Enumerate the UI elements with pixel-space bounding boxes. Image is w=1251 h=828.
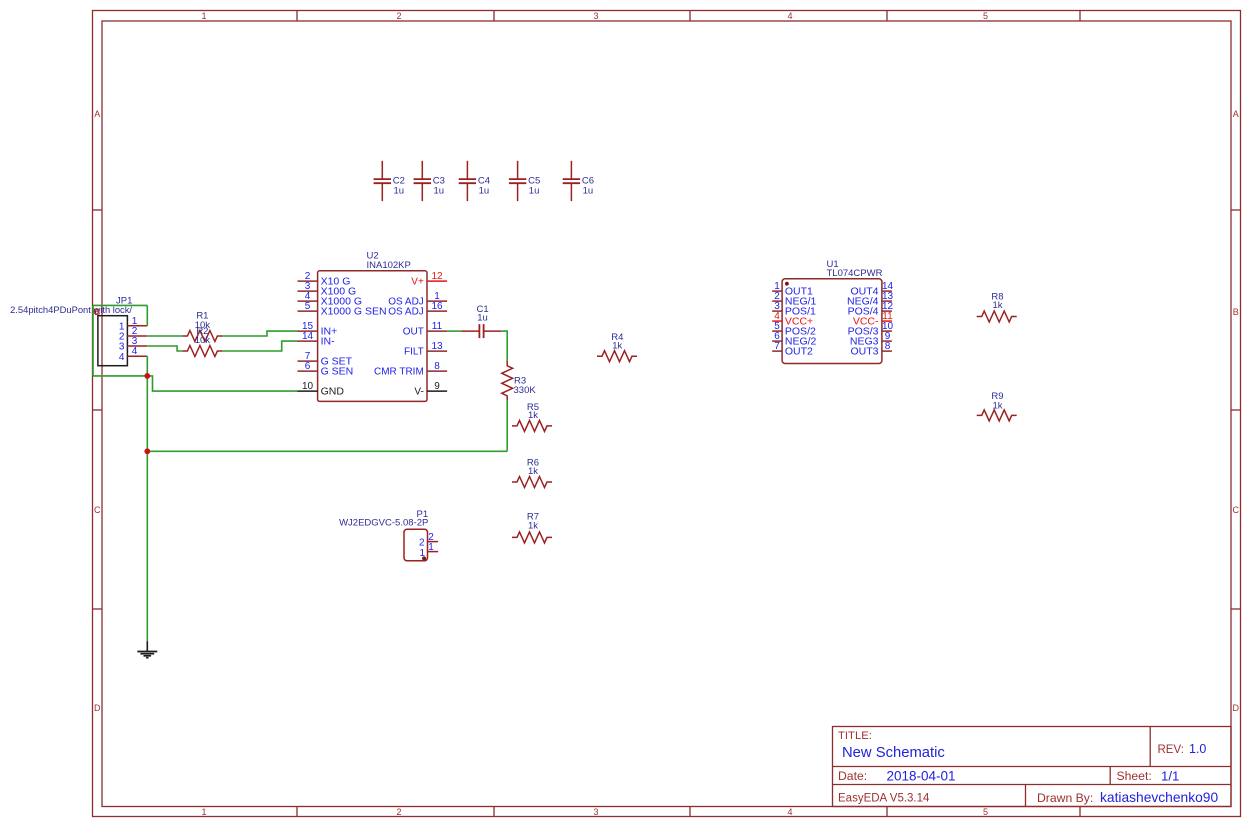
svg-text:D: D [94,703,101,713]
svg-text:4: 4 [787,11,792,21]
svg-text:FILT: FILT [404,347,424,358]
U2 pin 4 X1000 G [298,300,318,302]
U2 pin 8 CMR TRIM [427,370,447,372]
svg-text:G SEN: G SEN [321,366,354,378]
U1 pin 12 POS/4 [882,310,892,312]
resistor R5 [512,420,552,431]
resistor R6 [512,477,552,488]
svg-text:4: 4 [132,346,138,357]
U1 pin 10 POS/3 [882,330,892,332]
U2 pin 6 G SEN [298,370,318,372]
svg-text:10k: 10k [195,335,211,346]
svg-text:3: 3 [593,807,598,817]
row tick marks left/right [93,209,103,211]
U1 pin 4 VCC+ [772,320,782,322]
resistor R8 [977,311,1017,322]
JP1 pin 4 [127,355,147,357]
wire left vertical along frame [92,305,94,376]
svg-text:2: 2 [396,11,401,21]
wire R3 bottom vertical [506,400,508,451]
svg-text:C4: C4 [478,175,490,186]
svg-text:1u: 1u [479,186,490,197]
svg-text:5: 5 [983,807,988,817]
svg-text:katiashevchenko90: katiashevchenko90 [1100,790,1218,805]
svg-text:GND: GND [321,386,345,398]
svg-text:OS ADJ: OS ADJ [388,307,424,318]
U2 pin 7 G SET [298,360,318,362]
U2 pin 15 IN+ [298,330,318,332]
svg-text:1u: 1u [583,186,594,197]
svg-text:TITLE:: TITLE: [838,730,872,742]
svg-text:5: 5 [983,11,988,21]
svg-text:1: 1 [201,807,206,817]
U1 pin 9 NEG3 [882,340,892,342]
svg-text:8: 8 [434,361,440,372]
capacitor C3 [421,161,423,179]
svg-text:12: 12 [431,271,443,282]
wire main vertical down to ground [146,376,148,641]
svg-text:5: 5 [305,301,311,312]
svg-text:1k: 1k [992,400,1002,411]
svg-text:Sheet:: Sheet: [1117,769,1152,783]
svg-text:11: 11 [432,321,443,332]
U2 pin 2 X10 G [298,280,318,282]
U1 pin 14 OUT4 [882,290,892,292]
U1 pin 13 NEG/4 [882,300,892,302]
U1 pin 3 POS/1 [772,310,782,312]
svg-text:1: 1 [428,542,434,553]
svg-text:1k: 1k [528,410,538,421]
U2 pin 13 FILT [427,350,447,352]
svg-text:Drawn By:: Drawn By: [1037,791,1093,805]
svg-text:8: 8 [885,341,891,352]
svg-text:C6: C6 [582,175,594,186]
svg-text:1u: 1u [477,312,488,323]
svg-text:1k: 1k [528,466,538,477]
U2 pin 9 V- [427,390,447,392]
svg-text:4: 4 [787,807,792,817]
svg-text:1u: 1u [434,186,445,197]
connector JP1 body [98,316,128,366]
U1 pin 7 OUT2 [772,350,782,352]
P1 pin 1 [428,551,439,553]
P1 pin 2 [428,541,439,543]
JP1 pin 2 [127,335,147,337]
resistor R3 [502,361,513,401]
capacitor C1 [462,330,480,332]
resistor R9 [977,410,1017,421]
U1 pin 8 OUT3 [882,350,892,352]
svg-text:OUT2: OUT2 [785,346,813,358]
svg-text:EasyEDA V5.3.14: EasyEDA V5.3.14 [838,793,930,805]
svg-text:3: 3 [593,11,598,21]
junction node A [144,373,150,379]
svg-text:9: 9 [434,381,440,392]
ground symbol [146,641,148,651]
svg-text:1k: 1k [528,521,538,532]
svg-text:1u: 1u [394,186,405,197]
svg-text:B: B [1233,307,1239,317]
U2 pin 1 OS ADJ [427,300,447,302]
svg-text:C2: C2 [393,175,405,186]
resistor R2 [182,346,222,357]
svg-text:1u: 1u [529,186,540,197]
svg-text:10: 10 [302,381,314,392]
svg-text:C: C [94,505,101,515]
svg-text:IN-: IN- [321,336,336,348]
svg-text:D: D [1233,703,1240,713]
svg-text:A: A [94,109,100,119]
svg-text:1/1: 1/1 [1161,768,1179,783]
svg-text:X1000 G SEN: X1000 G SEN [321,306,387,318]
svg-text:2018-04-01: 2018-04-01 [887,768,956,783]
svg-text:16: 16 [431,301,443,312]
connector P1 body [404,529,428,561]
U1 pin 1 OUT1 [772,290,782,292]
wire JP1 pin1 loop top [93,304,147,306]
U2 pin 11 OUT [427,330,447,332]
capacitor C2 [381,161,383,179]
U2 pin 5 X1000 G SEN [298,310,318,312]
wire jog to U2 GND pin10 [147,376,297,391]
svg-text:Date:: Date: [838,769,867,783]
svg-text:A: A [1233,109,1239,119]
svg-text:6: 6 [305,361,311,372]
U1 pin1 marker dot [785,282,789,286]
U1 pin 2 NEG/1 [772,300,782,302]
wire bottom of loop [93,375,147,377]
U2 pin 12 V+ [427,280,447,282]
svg-text:WJ2EDGVC-5.08-2P: WJ2EDGVC-5.08-2P [339,518,428,529]
capacitor C6 [570,161,572,179]
U1 pin 6 NEG/2 [772,340,782,342]
svg-text:REV:: REV: [1158,744,1184,756]
JP1 pin 3 [127,345,147,347]
svg-text:TL074CPWR: TL074CPWR [827,268,883,279]
svg-text:14: 14 [302,331,314,342]
svg-text:New Schematic: New Schematic [842,745,945,761]
svg-text:7: 7 [774,341,780,352]
capacitor C5 [517,161,519,179]
resistor R1 [182,331,222,342]
svg-text:OUT: OUT [403,327,424,338]
svg-text:C: C [1233,505,1240,515]
svg-text:330K: 330K [514,385,537,396]
svg-text:C5: C5 [528,175,540,186]
wire JP1 pin3 to R2 [147,346,182,351]
svg-text:1.0: 1.0 [1189,742,1206,756]
svg-text:1: 1 [201,11,206,21]
svg-text:13: 13 [431,341,443,352]
column tick marks top/bottom [296,11,298,22]
svg-text:1k: 1k [992,300,1002,311]
U1 pin 5 POS/2 [772,330,782,332]
P1 polarity dot [422,556,426,560]
svg-text:CMR TRIM: CMR TRIM [374,367,424,378]
wire U2 OUT to C1 [447,330,462,332]
svg-text:INA102KP: INA102KP [367,260,411,271]
capacitor C4 [466,161,468,179]
svg-text:V+: V+ [411,277,424,288]
svg-text:1k: 1k [612,340,622,351]
svg-text:2: 2 [396,807,401,817]
svg-text:V-: V- [414,387,423,398]
wire JP1 pin4 down to junction [146,356,148,376]
svg-text:C3: C3 [433,175,445,186]
U2 pin 3 X100 G [298,290,318,292]
resistor R4 [597,351,637,362]
wire JP1 pin2 to R1 [147,335,182,337]
title block table [833,727,1232,807]
net ring marker [94,309,99,314]
svg-text:4: 4 [119,352,125,363]
wire R1 to U2 IN+ [222,331,297,336]
svg-text:OUT3: OUT3 [850,346,878,358]
JP1 pin 1 [127,325,147,327]
U2 pin 16 OS ADJ [427,310,447,312]
U1 pin 11 VCC- [882,320,892,322]
op-amp U1 TL074CPWR body [782,279,882,364]
wire junction to R3 bottom [147,450,507,452]
op-amp U2 INA102KP body [318,271,427,402]
resistor R7 [512,532,552,543]
U2 pin 14 IN- [298,340,318,342]
junction node B [144,448,150,454]
U2 pin 10 GND [298,390,318,392]
wire R2 to U2 IN- [222,341,297,351]
wire C1 to R3 top [501,331,507,361]
